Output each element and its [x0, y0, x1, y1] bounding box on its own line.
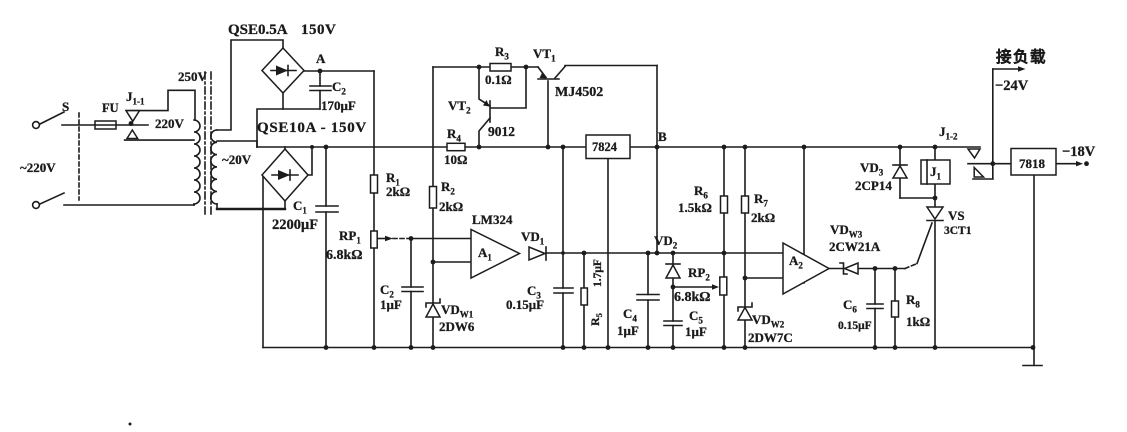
svg-text:接负载: 接负载	[996, 47, 1047, 66]
svg-text:2kΩ: 2kΩ	[751, 210, 775, 225]
svg-text:VS: VS	[948, 208, 965, 223]
svg-text:0.15μF: 0.15μF	[838, 320, 872, 332]
svg-text:3CT1: 3CT1	[944, 225, 972, 237]
svg-text:2DW7C: 2DW7C	[748, 330, 793, 345]
svg-text:6.8kΩ: 6.8kΩ	[326, 248, 363, 263]
svg-text:MJ4502: MJ4502	[555, 85, 603, 100]
svg-text:0.15μF: 0.15μF	[506, 297, 544, 312]
svg-text:2kΩ: 2kΩ	[439, 199, 463, 214]
svg-text:S: S	[62, 99, 69, 114]
svg-text:0.1Ω: 0.1Ω	[485, 72, 512, 87]
svg-text:7824: 7824	[592, 140, 618, 154]
svg-text:~220V: ~220V	[20, 160, 56, 175]
svg-text:−24V: −24V	[995, 78, 1029, 94]
svg-text:10Ω: 10Ω	[444, 152, 467, 167]
svg-text:7818: 7818	[1019, 156, 1046, 171]
svg-text:2CP14: 2CP14	[855, 178, 892, 193]
svg-text:220V: 220V	[155, 116, 185, 131]
svg-text:1μF: 1μF	[380, 297, 402, 312]
svg-text:LM324: LM324	[472, 212, 513, 227]
svg-text:1μF: 1μF	[617, 323, 639, 338]
svg-text:B: B	[658, 129, 667, 144]
svg-text:FU: FU	[102, 101, 119, 115]
svg-text:2200μF: 2200μF	[272, 217, 318, 233]
svg-text:150V: 150V	[301, 22, 336, 38]
svg-text:A: A	[316, 51, 326, 66]
svg-text:QSE0.5A: QSE0.5A	[228, 22, 288, 38]
svg-text:2DW6: 2DW6	[439, 319, 475, 334]
svg-text:~20V: ~20V	[222, 152, 252, 167]
svg-text:2CW21A: 2CW21A	[829, 239, 881, 254]
svg-text:250V: 250V	[178, 69, 208, 84]
svg-text:1.5kΩ: 1.5kΩ	[678, 200, 712, 215]
svg-text:1.7μF: 1.7μF	[592, 259, 604, 287]
svg-text:2kΩ: 2kΩ	[386, 184, 410, 199]
svg-text:9012: 9012	[488, 124, 515, 139]
svg-text:1μF: 1μF	[685, 324, 707, 339]
svg-text:170μF: 170μF	[321, 98, 356, 113]
svg-text:1kΩ: 1kΩ	[906, 314, 930, 329]
svg-text:QSE10A - 150V: QSE10A - 150V	[257, 120, 367, 136]
svg-text:6.8kΩ: 6.8kΩ	[674, 290, 711, 305]
svg-text:−18V: −18V	[1062, 144, 1096, 160]
